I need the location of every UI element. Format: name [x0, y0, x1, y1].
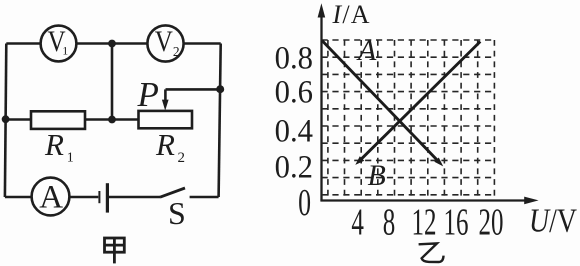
svg-text:S: S: [168, 195, 186, 231]
switch S blade: [160, 188, 185, 197]
node junction right wiper tap: [216, 85, 224, 93]
wire switch to right corner: [190, 196, 219, 199]
grid vertical dashed lines: [328, 40, 495, 200]
x tick label 12: [411, 201, 436, 244]
origin label 0: [298, 182, 311, 224]
wire middle vertical: [111, 44, 114, 120]
x tick label 8: [383, 201, 396, 244]
curve A descending: [322, 41, 440, 163]
svg-text:R: R: [44, 127, 64, 162]
svg-text:I/A: I/A: [332, 0, 371, 29]
battery positive plate (long): [106, 183, 109, 212]
node junction top middle: [108, 40, 116, 48]
svg-text:0.6: 0.6: [275, 74, 313, 110]
wire battery to switch: [109, 196, 160, 199]
svg-text:12: 12: [411, 201, 436, 244]
svg-text:U/V: U/V: [529, 201, 578, 239]
wire R1 to node: [85, 118, 112, 121]
wire ammeter to battery: [69, 196, 98, 199]
x tick label 16: [443, 201, 468, 244]
svg-text:A: A: [356, 34, 377, 67]
svg-text:A: A: [39, 179, 63, 215]
svg-text:B: B: [368, 159, 386, 192]
wire right vertical: [219, 44, 221, 198]
svg-text:1: 1: [67, 151, 74, 166]
grid horizontal dashed lines: [322, 40, 496, 195]
y-axis I: [320, 16, 322, 201]
svg-text:V: V: [155, 25, 173, 57]
wire left vertical: [5, 44, 6, 198]
label V2: [155, 25, 180, 59]
y tick label 0.2: [275, 149, 313, 185]
y tick label 0.6: [275, 74, 313, 110]
wiper arrow stem P: [164, 89, 167, 100]
wire V1 to V2: [76, 42, 147, 45]
glyph yi (乙) caption: [419, 243, 444, 262]
x-axis U: [320, 199, 525, 201]
node junction left resistor row: [2, 115, 10, 123]
svg-text:4: 4: [351, 201, 364, 244]
curve B ascending: [360, 42, 481, 161]
voltmeter V2: [147, 25, 183, 61]
label R1: [44, 127, 74, 166]
label V1: [47, 25, 68, 57]
resistor R1: [31, 111, 85, 129]
svg-text:1: 1: [62, 44, 68, 58]
svg-text:0.2: 0.2: [275, 149, 313, 185]
resistor R2 (rheostat body): [139, 111, 193, 128]
svg-text:16: 16: [443, 201, 468, 244]
wire bottom-left to ammeter: [5, 196, 32, 199]
svg-text:20: 20: [478, 201, 503, 244]
svg-text:2: 2: [173, 44, 180, 59]
wire top-left horizontal: [6, 42, 40, 45]
x tick label 20: [478, 201, 503, 244]
wiper arrowhead: [162, 100, 169, 111]
svg-text:0.8: 0.8: [275, 40, 313, 76]
x tick label 4: [351, 201, 364, 244]
x-axis title U/V: [529, 201, 578, 239]
battery negative plate (short): [98, 191, 100, 203]
svg-text:R: R: [155, 127, 175, 162]
y tick label 0.4: [275, 112, 313, 148]
wire V2 to right corner: [184, 42, 221, 45]
wire node to R2: [112, 118, 139, 121]
wire wiper horizontal to right rail: [166, 88, 221, 91]
label R2: [155, 127, 185, 166]
x-axis arrowhead: [524, 197, 538, 205]
ammeter A: [32, 178, 70, 216]
voltmeter V1: [41, 26, 77, 62]
node junction middle resistor row: [108, 116, 116, 124]
wire left to R1: [6, 118, 31, 121]
svg-text:0.4: 0.4: [275, 112, 313, 148]
y-axis arrowhead: [318, 3, 326, 17]
svg-text:2: 2: [178, 150, 186, 166]
y tick label 0.8: [275, 40, 313, 76]
curve A arrowhead: [434, 158, 443, 167]
svg-text:0: 0: [298, 182, 311, 224]
svg-text:8: 8: [383, 201, 396, 244]
svg-text:P: P: [137, 75, 159, 114]
curve B arrowhead: [355, 156, 364, 165]
glyph jia (甲) caption: [105, 238, 125, 263]
